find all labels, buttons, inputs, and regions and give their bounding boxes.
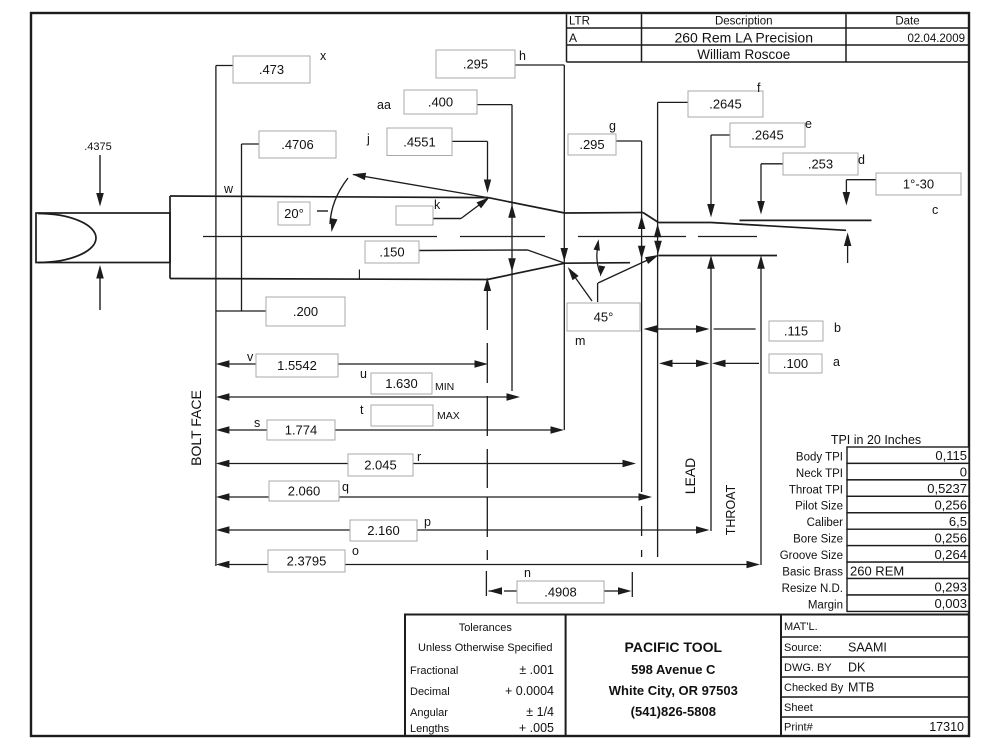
svg-text:Margin: Margin [808, 599, 843, 611]
svg-text:0,115: 0,115 [935, 448, 967, 463]
svg-text:THROAT: THROAT [724, 484, 738, 535]
svg-text:.295: .295 [463, 57, 488, 72]
svg-text:MAT'L.: MAT'L. [784, 621, 818, 633]
svg-text:Body TPI: Body TPI [796, 451, 843, 463]
svg-text:Source:: Source: [784, 642, 822, 654]
svg-text:u: u [360, 367, 367, 381]
svg-text:.400: .400 [428, 95, 453, 110]
svg-text:6,5: 6,5 [949, 514, 967, 529]
svg-text:Description: Description [715, 16, 773, 28]
svg-text:DK: DK [848, 661, 866, 675]
svg-text:v: v [247, 350, 254, 364]
svg-text:h: h [519, 49, 526, 63]
svg-text:MAX: MAX [437, 410, 460, 422]
svg-text:MIN: MIN [435, 381, 454, 393]
svg-text:0,293: 0,293 [934, 580, 967, 595]
svg-text:Throat TPI: Throat TPI [789, 484, 843, 496]
svg-text:20°: 20° [284, 206, 304, 221]
svg-text:1.5542: 1.5542 [277, 358, 317, 373]
svg-text:o: o [352, 544, 359, 558]
svg-text:Caliber: Caliber [807, 517, 844, 529]
svg-text:l: l [358, 268, 361, 282]
svg-text:Fractional: Fractional [410, 665, 458, 677]
svg-text:0,264: 0,264 [934, 547, 967, 562]
svg-text:+ 0.0004: + 0.0004 [505, 684, 554, 698]
svg-text:Date: Date [895, 16, 919, 28]
svg-text:1.774: 1.774 [285, 423, 318, 438]
svg-text:.4375: .4375 [84, 141, 112, 153]
svg-text:1.630: 1.630 [385, 376, 418, 391]
svg-text:02.04.2009: 02.04.2009 [907, 33, 965, 45]
svg-text:260 Rem LA Precision: 260 Rem LA Precision [674, 30, 813, 46]
svg-text:.2645: .2645 [751, 128, 784, 143]
svg-text:.253: .253 [808, 157, 833, 172]
svg-text:0,5237: 0,5237 [927, 481, 967, 496]
svg-text:.115: .115 [784, 324, 808, 339]
svg-text:n: n [524, 566, 531, 580]
svg-text:k: k [434, 198, 441, 212]
svg-text:p: p [424, 515, 431, 529]
svg-text:Checked By: Checked By [784, 682, 844, 694]
svg-text:Resize N.D.: Resize N.D. [782, 583, 843, 595]
svg-text:g: g [609, 119, 616, 133]
svg-text:.150: .150 [379, 245, 404, 260]
svg-text:Sheet: Sheet [784, 702, 813, 714]
svg-text:Pilot Size: Pilot Size [795, 501, 843, 513]
svg-text:LEAD: LEAD [682, 458, 698, 495]
svg-text:TPI in 20 Inches: TPI in 20 Inches [831, 433, 921, 447]
svg-text:c: c [932, 203, 938, 217]
svg-text:Lengths: Lengths [410, 723, 450, 735]
svg-text:r: r [417, 450, 421, 464]
svg-text:45°: 45° [594, 310, 614, 325]
svg-text:w: w [223, 182, 234, 196]
svg-text:.4551: .4551 [403, 134, 436, 149]
svg-text:x: x [320, 49, 327, 63]
svg-text:j: j [366, 132, 370, 146]
svg-text:.473: .473 [259, 62, 284, 77]
svg-text:BOLT FACE: BOLT FACE [188, 390, 204, 466]
svg-text:a: a [833, 355, 840, 369]
svg-text:Bore Size: Bore Size [793, 534, 843, 546]
svg-text:DWG. BY: DWG. BY [784, 662, 832, 674]
svg-text:0: 0 [960, 465, 967, 480]
svg-text:d: d [858, 153, 865, 167]
svg-text:f: f [757, 81, 761, 95]
svg-text:White City, OR 97503: White City, OR 97503 [609, 683, 738, 698]
svg-text:.295: .295 [579, 137, 604, 152]
svg-text:± 1/4: ± 1/4 [526, 705, 554, 719]
svg-text:0,256: 0,256 [934, 530, 967, 545]
svg-text:PACIFIC TOOL: PACIFIC TOOL [625, 639, 723, 655]
svg-text:.100: .100 [783, 356, 808, 371]
svg-text:.200: .200 [293, 304, 318, 319]
svg-text:2.060: 2.060 [288, 484, 321, 499]
svg-text:MTB: MTB [848, 681, 874, 695]
svg-text:± .001: ± .001 [519, 663, 554, 677]
svg-text:Tolerances: Tolerances [459, 622, 513, 634]
svg-text:598 Avenue C: 598 Avenue C [631, 662, 716, 677]
svg-text:t: t [360, 403, 364, 417]
svg-text:0,256: 0,256 [934, 498, 967, 513]
svg-text:b: b [834, 321, 841, 335]
svg-text:Decimal: Decimal [410, 686, 450, 698]
svg-text:Neck TPI: Neck TPI [796, 468, 843, 480]
svg-text:2.045: 2.045 [364, 458, 397, 473]
svg-text:e: e [805, 117, 812, 131]
svg-text:.4706: .4706 [281, 137, 314, 152]
svg-text:.4908: .4908 [544, 585, 577, 600]
svg-text:s: s [254, 416, 260, 430]
svg-text:Angular: Angular [410, 707, 448, 719]
svg-text:m: m [575, 334, 585, 348]
svg-text:2.160: 2.160 [367, 523, 400, 538]
svg-text:2.3795: 2.3795 [287, 554, 327, 569]
svg-text:17310: 17310 [929, 720, 964, 734]
svg-text:.2645: .2645 [709, 97, 742, 112]
svg-text:1°-30: 1°-30 [903, 177, 934, 192]
svg-text:Groove Size: Groove Size [780, 550, 843, 562]
svg-text:A: A [569, 31, 577, 45]
svg-text:+ .005: + .005 [519, 721, 554, 735]
svg-text:q: q [342, 480, 349, 494]
svg-text:Print#: Print# [784, 722, 814, 734]
svg-text:260 REM: 260 REM [850, 563, 904, 578]
svg-text:0,003: 0,003 [934, 596, 967, 611]
svg-text:(541)826-5808: (541)826-5808 [631, 704, 716, 719]
svg-text:aa: aa [377, 98, 391, 112]
svg-text:SAAMI: SAAMI [848, 641, 887, 655]
svg-text:William Roscoe: William Roscoe [697, 47, 790, 62]
svg-text:Unless Otherwise Specified: Unless Otherwise Specified [418, 642, 553, 654]
svg-text:LTR: LTR [569, 16, 590, 28]
svg-text:Basic Brass: Basic Brass [782, 566, 843, 578]
